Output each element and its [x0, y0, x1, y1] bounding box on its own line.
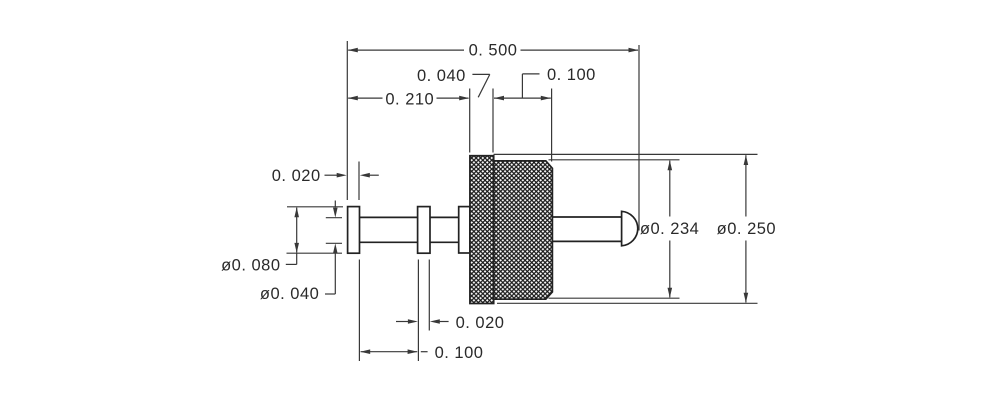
extension line flange F1 right edge upper (x=359)	[358, 162, 360, 201]
svg-text:ø0. 040: ø0. 040	[260, 285, 319, 303]
extension line body right (x=551.6)	[551, 89, 553, 162]
wire shaft-mid bottom line	[429, 241, 460, 243]
knurled body (dia 0.234) with chamfered right corners	[494, 161, 553, 299]
dome head (half-round tip)	[622, 211, 638, 246]
flange F2 (second disc)	[418, 207, 430, 254]
dimension dia0.234 line	[669, 161, 671, 217]
dimension dia0.080 leader	[296, 253, 298, 264]
svg-text:0. 100: 0. 100	[547, 66, 596, 84]
dimension dia0.250 extension lines	[494, 153, 758, 155]
dimension 0.100 top leader	[521, 74, 523, 98]
knurled flange (dia 0.250)	[470, 156, 494, 304]
dimension 0.210 line	[348, 97, 382, 99]
svg-text:ø0. 250: ø0. 250	[717, 220, 776, 238]
dimension dia0.040 witness lines	[326, 217, 342, 219]
dimension 0.020 bottom arrows	[396, 321, 409, 323]
wire shaft-right top line	[552, 216, 622, 218]
svg-text:0. 020: 0. 020	[456, 314, 505, 332]
collar (hub before knurled flange)	[459, 207, 470, 253]
extension line knurl-flange right (x=493)	[492, 89, 494, 153]
svg-text:0. 100: 0. 100	[435, 344, 484, 362]
wire shaft-right bottom line	[552, 240, 622, 242]
wire shaft-mid top line	[429, 216, 460, 218]
dimension dia0.250 line	[745, 155, 747, 216]
dimension 0.500 line	[348, 49, 464, 51]
svg-text:0. 020: 0. 020	[272, 167, 321, 185]
dimension 0.100 bottom line	[361, 351, 418, 353]
dimension dia0.080 line	[296, 208, 298, 253]
wire shaft-left top line	[358, 216, 419, 218]
dimension 0.040 leader	[472, 73, 489, 75]
dimension dia0.040 leader	[325, 293, 335, 295]
dimension dia0.080 witness lines	[287, 206, 343, 208]
svg-text:ø0. 080: ø0. 080	[221, 257, 280, 275]
dimension 0.100 top line	[494, 97, 551, 99]
extension line below F1 right edge (x=359.4)	[358, 260, 360, 362]
dimension dia0.234 extension lines	[549, 159, 680, 161]
extension line left (x=347)	[346, 41, 348, 200]
extension line below F2 right edge (x=429.3)	[428, 260, 430, 331]
extension line knurl-flange left (x=469.7)	[469, 89, 471, 153]
flange F1 (leftmost disc)	[348, 207, 360, 254]
svg-text:0. 210: 0. 210	[385, 91, 434, 109]
dimension 0.020 left arrows	[325, 174, 338, 176]
svg-text:ø0. 234: ø0. 234	[640, 220, 699, 238]
extension line below F2 left edge (x=418.4)	[417, 260, 419, 362]
svg-text:0. 500: 0. 500	[469, 41, 518, 59]
svg-text:0. 040: 0. 040	[417, 67, 466, 85]
dimension dia0.040 arrows	[334, 201, 336, 208]
wire shaft-left bottom line	[358, 241, 419, 243]
extension line right of 0.500 (x=639)	[638, 45, 640, 231]
